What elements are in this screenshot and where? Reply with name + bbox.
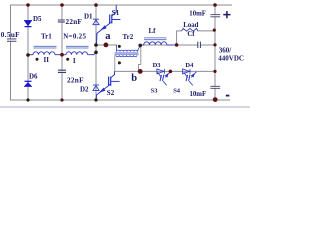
resistor Load zigzag <box>182 28 199 31</box>
capacitor 10mF bottom <box>210 86 220 88</box>
wire Load branch <box>177 31 215 45</box>
junction dot x62 winding <box>60 53 64 57</box>
capacitor 22nF top <box>58 20 65 22</box>
svg-text:N=0.25: N=0.25 <box>63 32 86 40</box>
junction dot bottom x62 <box>60 98 63 101</box>
svg-text:S4: S4 <box>173 87 181 94</box>
wire left rail <box>10 5 12 100</box>
junction dot x28 winding II <box>26 53 30 57</box>
svg-text:Lf: Lf <box>149 27 157 35</box>
svg-text:S2: S2 <box>107 89 115 97</box>
capacitor 22nF bottom <box>58 70 66 72</box>
diode D3 <box>157 69 164 74</box>
wire top rail <box>11 4 232 6</box>
svg-text:S3: S3 <box>151 87 159 94</box>
label plus <box>223 11 230 18</box>
junction dot top x62 <box>60 3 64 7</box>
IGBT S2 <box>96 71 119 100</box>
junction dot bottom x215 <box>213 97 218 102</box>
junction dot bus Cf <box>213 43 216 46</box>
transformer Tr1 core <box>34 46 89 48</box>
S2 emitter arrow <box>99 88 105 93</box>
diode D1 <box>93 19 99 25</box>
wire Lf to Cf node <box>141 44 175 46</box>
svg-text:I: I <box>73 57 76 65</box>
svg-text:Tr1: Tr1 <box>41 33 52 41</box>
svg-text:b: b <box>131 73 137 84</box>
capacitor 10mF top <box>210 15 220 17</box>
transformer Tr2 core <box>115 53 139 54</box>
bottom page line <box>0 106 250 108</box>
wire node a horizontal <box>96 44 117 46</box>
svg-text:440VDC: 440VDC <box>218 55 244 63</box>
junction dot Cf left <box>175 43 179 47</box>
wire Cf branch <box>175 44 216 46</box>
S1 emitter arrow <box>100 25 106 30</box>
Tr2 phase dot bottom <box>118 61 121 64</box>
svg-text:22nF: 22nF <box>67 76 84 84</box>
Tr1 phase dot I <box>66 58 69 61</box>
IGBT S1 <box>97 5 121 44</box>
svg-text:II: II <box>44 56 50 64</box>
junction dot bus b <box>213 70 216 73</box>
label minus <box>226 95 230 97</box>
junction dot D3-D4 <box>169 70 173 74</box>
wire right DC bus x215 <box>214 5 216 100</box>
Tr2 right side link <box>139 47 141 72</box>
svg-text:D5: D5 <box>33 15 42 23</box>
svg-text:22nF: 22nF <box>66 18 83 26</box>
svg-text:360/: 360/ <box>219 47 233 55</box>
junction dot x96 winding I <box>94 51 98 55</box>
S3 arrow <box>165 73 169 77</box>
svg-text:D1: D1 <box>84 13 93 21</box>
svg-text:a: a <box>105 31 111 42</box>
diode D2 <box>93 85 99 90</box>
junction dot top x215 <box>213 3 217 7</box>
diode D6 <box>24 81 32 86</box>
transformer Tr2 bottom winding <box>115 55 137 71</box>
inductor Lf <box>141 42 175 45</box>
junction dot Tr2 right top <box>138 44 142 48</box>
junction dot top x28 <box>26 3 30 7</box>
svg-text:Cf: Cf <box>187 31 195 38</box>
svg-text:D4: D4 <box>185 62 194 69</box>
svg-text:D6: D6 <box>29 72 38 80</box>
wire bottom rail <box>11 99 230 101</box>
node b big dot <box>138 69 143 74</box>
junction dot bus Load <box>213 29 216 32</box>
wire vertical midpoint branch x96 <box>95 5 97 100</box>
svg-text:D3: D3 <box>153 62 162 69</box>
inductor Lf core <box>144 38 167 40</box>
transformer Tr1 winding I <box>62 52 96 55</box>
svg-text:10mF: 10mF <box>189 11 206 18</box>
transformer Tr2 top winding <box>117 45 140 52</box>
svg-text:S1: S1 <box>112 9 120 17</box>
Tr2 phase dot top <box>118 45 121 48</box>
junction dot bottom x96 <box>94 98 97 101</box>
junction dot top x96 <box>94 3 98 7</box>
IGBT S3 <box>158 72 171 86</box>
wire node b horizontal <box>115 70 216 72</box>
transformer Tr1 winding II <box>29 52 63 55</box>
junction dot bottom x28 <box>26 98 29 101</box>
wire vertical D5/D6 branch x28 <box>27 5 29 100</box>
svg-text:D2: D2 <box>80 85 89 93</box>
IGBT S4 <box>184 72 197 86</box>
diode D4 <box>183 69 190 74</box>
svg-text:Load: Load <box>183 22 198 29</box>
svg-text:10mF: 10mF <box>190 91 207 98</box>
svg-text:0.5uF: 0.5uF <box>1 31 20 39</box>
node a big dot <box>104 43 109 48</box>
S4 arrow <box>191 73 195 77</box>
Tr1 phase dot II <box>36 58 39 61</box>
diode D5 <box>24 20 32 26</box>
capacitor 0.5uF <box>7 39 16 41</box>
junction dot x96 node a wire <box>94 43 98 47</box>
wire vertical 22nF branch x62 <box>61 5 63 100</box>
capacitor Cf <box>198 42 201 48</box>
svg-text:Tr2: Tr2 <box>123 33 134 41</box>
